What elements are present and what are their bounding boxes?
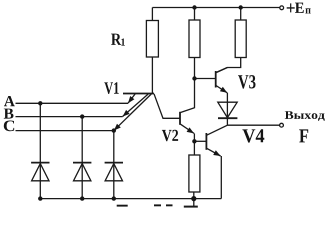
node dot rail D3 (112, 196, 116, 200)
transistor V2 base bar (179, 112, 181, 125)
diode VD1 (31, 163, 49, 181)
wire V3 emitter to diode V4 (226, 93, 228, 125)
node dot line A (38, 101, 42, 105)
wire top supply rail (152, 7, 279, 9)
transistor V3 emitter (216, 86, 227, 93)
transistor V1 collector to V2 base (154, 94, 180, 119)
wire diode VD1 top lead (39, 103, 41, 198)
caption dash 3 (166, 204, 173, 206)
label V1 (104, 82, 118, 94)
resistor R3 (235, 20, 246, 58)
wire R1 top lead (151, 8, 153, 21)
wire input line A (16, 102, 129, 104)
label V2 (162, 130, 178, 141)
wire R4 bottom lead (193, 192, 195, 199)
arrow V1 emitter B (123, 110, 130, 117)
node dot V4 base (192, 139, 196, 143)
transistor V1 emitter to B (123, 94, 149, 117)
wire R3 top lead (240, 8, 242, 21)
wire diode VD2 top lead (81, 117, 83, 199)
node supply terminal (280, 6, 284, 10)
label V3 (238, 75, 255, 89)
label F output (299, 129, 308, 142)
diode VD2 (73, 163, 91, 181)
node dot V3 base (192, 76, 196, 80)
label input C (4, 121, 14, 132)
wire diode VD3 top lead (113, 131, 115, 199)
label R1 R (111, 34, 121, 45)
node dot rail ground (191, 196, 196, 201)
wire input line B (16, 116, 123, 118)
arrow V4 emitter (213, 150, 220, 156)
transistor V4 base bar (205, 133, 207, 150)
wire V3 base lead (195, 78, 216, 80)
label E supply (295, 3, 304, 13)
wire input line C (16, 130, 115, 132)
node dot rail D1 (38, 196, 42, 200)
resistor R4 (189, 155, 200, 192)
wire V4 base lead (194, 140, 206, 142)
arrow V1 emitter A (128, 96, 134, 103)
wire V2 emitter down to R4 (193, 133, 195, 155)
node output terminal (280, 123, 284, 127)
transistor V3 collector (216, 68, 227, 73)
transistor V1 emitter to C (114, 94, 151, 131)
transistor V4 emitter (207, 148, 221, 156)
arrow V3 emitter (220, 87, 227, 93)
transistor V1 base bar (123, 93, 154, 95)
wire V4 emitter down to rail (220, 156, 222, 199)
diode VD3 (105, 163, 123, 181)
ground symbol (184, 199, 198, 207)
resistor R2 (189, 20, 200, 58)
label plus sign (287, 3, 295, 12)
wire output line (227, 124, 279, 126)
transistor V2 emitter (181, 124, 195, 133)
label Vyhod output (285, 111, 325, 121)
label input B (4, 109, 14, 119)
label R1 subscript 1 (121, 39, 125, 46)
wire R2 top lead (194, 8, 196, 21)
arrow V1 emitter C (114, 124, 121, 131)
resistor R1 (146, 21, 158, 58)
label V4 (242, 129, 264, 142)
label input A (4, 96, 15, 106)
transistor V4 collector from output node (207, 125, 228, 135)
node dot rail D2 (80, 196, 84, 200)
wire R1 bottom lead to V1 base (151, 57, 153, 94)
arrow V2 emitter (187, 127, 194, 133)
node dot line B (80, 114, 84, 118)
wire bottom ground rail (40, 198, 221, 200)
node dot line C (112, 128, 116, 132)
label p subscript (305, 8, 310, 13)
diode VD4 level shift (218, 102, 238, 118)
wire R2 bottom lead to V2 collector (194, 58, 196, 109)
transistor V1 emitter to A (128, 94, 135, 103)
wire R3 bottom jog to V3 collector (216, 58, 241, 73)
transistor V2 collector (181, 108, 195, 113)
caption dash 2 (154, 204, 161, 206)
node dot rail R3 (239, 5, 243, 9)
transistor V3 base bar (215, 71, 217, 88)
caption dash 1 (117, 205, 128, 207)
node dot rail R2 (192, 5, 196, 9)
